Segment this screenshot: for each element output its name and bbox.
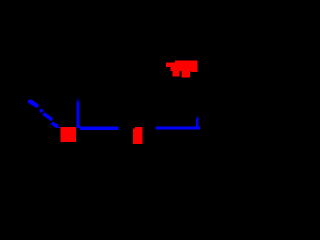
node: riser step [197, 117, 199, 119]
atom O3 hydroxyl OH label (red text blob) [166, 61, 198, 78]
ground plane: opaque black band at bottom (invisible on dark bg) [0, 162, 200, 200]
node: dark navy antialias tip of vertical bond [77, 98, 80, 101]
wire: black upper part of diagonal bond (invisible on dark bg) [8, 84, 28, 101]
wire: black bond up to OH group (invisible on dark bg) [140, 79, 190, 126]
bond: blue right segment of horizontal chain [156, 126, 201, 129]
atom O2 label block (red bar below chain) [133, 127, 143, 144]
bond: blue lower part of vertical bond [76, 103, 79, 129]
bond: blue left half of horizontal bond from N junction [80, 126, 119, 129]
bond N1 dashed diagonal (blue dashes) [28, 99, 61, 128]
atom O1 label block (red square) [61, 127, 76, 142]
bond: blue riser at right edge [196, 119, 199, 127]
wire: black middle of horizontal bond (invisible on dark bg) [119, 127, 156, 130]
wire: black upper part of vertical bond (invisible on dark bg) [77, 0, 80, 99]
